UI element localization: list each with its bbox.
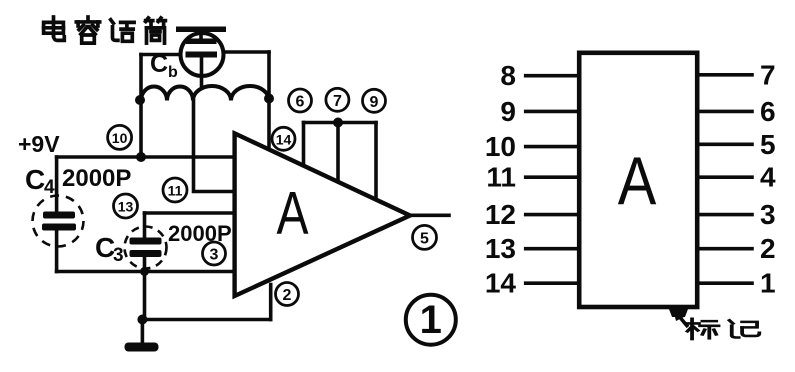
svg-text:11: 11 — [486, 162, 516, 193]
svg-text:C: C — [150, 50, 168, 78]
svg-text:1: 1 — [420, 298, 442, 342]
svg-text:2: 2 — [283, 287, 292, 304]
svg-text:3: 3 — [760, 199, 776, 230]
svg-text:9: 9 — [370, 94, 379, 111]
svg-text:3: 3 — [113, 245, 124, 266]
svg-text:6: 6 — [760, 96, 776, 127]
svg-text:5: 5 — [760, 129, 776, 160]
svg-text:14: 14 — [485, 268, 517, 299]
svg-text:A: A — [276, 179, 309, 246]
svg-text:2000P: 2000P — [62, 165, 131, 192]
svg-text:4: 4 — [44, 177, 55, 198]
svg-text:12: 12 — [485, 199, 516, 230]
svg-text:1: 1 — [760, 268, 776, 299]
svg-text:2: 2 — [760, 233, 776, 264]
svg-text:2000P: 2000P — [168, 221, 232, 246]
svg-text:C: C — [25, 164, 45, 195]
svg-text:8: 8 — [500, 60, 516, 91]
svg-text:9: 9 — [500, 96, 516, 127]
svg-text:10: 10 — [485, 131, 516, 162]
svg-text:4: 4 — [760, 162, 776, 193]
svg-text:13: 13 — [118, 199, 134, 215]
svg-text:A: A — [618, 144, 657, 219]
svg-text:14: 14 — [276, 131, 292, 147]
svg-text:5: 5 — [420, 230, 429, 247]
svg-text:10: 10 — [112, 130, 128, 146]
svg-text:11: 11 — [168, 183, 183, 199]
svg-text:3: 3 — [210, 247, 219, 264]
svg-text:7: 7 — [333, 93, 342, 110]
svg-text:13: 13 — [485, 233, 516, 264]
svg-text:6: 6 — [296, 94, 305, 111]
svg-text:b: b — [168, 64, 178, 81]
svg-text:+9V: +9V — [18, 131, 60, 157]
svg-text:7: 7 — [760, 59, 776, 90]
